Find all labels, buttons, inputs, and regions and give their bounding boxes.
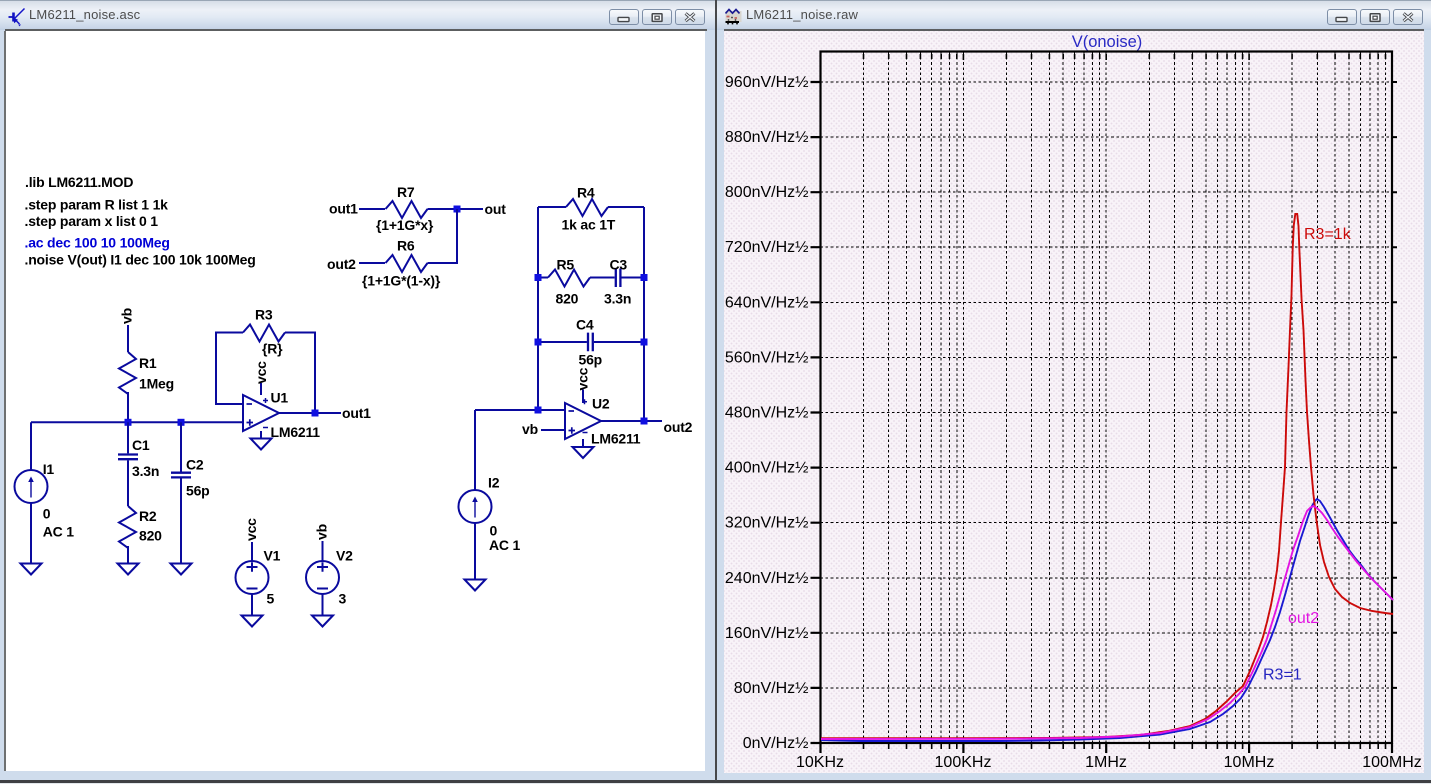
svg-text:.lib LM6211.MOD: .lib LM6211.MOD (25, 174, 133, 190)
svg-text:720nV/Hz½: 720nV/Hz½ (725, 239, 809, 256)
U2 vcc pin (582, 390, 584, 404)
svg-text:R3=1k: R3=1k (1304, 226, 1352, 243)
svg-text:400nV/Hz½: 400nV/Hz½ (725, 460, 809, 477)
svg-text:vcc: vcc (575, 367, 591, 390)
junction rail-C3 right (641, 274, 648, 281)
op-amp U2 (565, 403, 601, 439)
svg-text:820: 820 (556, 291, 579, 307)
svg-text:640nV/Hz½: 640nV/Hz½ (725, 294, 809, 311)
svg-text:.step param x list 0 1: .step param x list 0 1 (25, 213, 159, 229)
wire vcc to V1 (251, 542, 253, 562)
svg-text:160nV/Hz½: 160nV/Hz½ (725, 625, 809, 642)
svg-text:800nV/Hz½: 800nV/Hz½ (725, 184, 809, 201)
svg-text:10MHz: 10MHz (1224, 754, 1275, 771)
divider dark line between windows (715, 0, 717, 781)
wire out2 to R6 (359, 262, 385, 264)
wire node to C1 (127, 422, 129, 453)
ground below C2 (171, 564, 192, 575)
resistor R1 (119, 352, 136, 394)
wire right rail (643, 207, 645, 421)
wire U1 output to out1 (279, 412, 341, 414)
wire R5 to C3 (590, 277, 615, 279)
svg-text:3: 3 (339, 591, 347, 607)
resistor R7 (386, 201, 428, 218)
svg-text:C4: C4 (576, 317, 594, 333)
op-amp U1 (243, 395, 279, 431)
svg-text:1k ac 1T: 1k ac 1T (562, 217, 616, 233)
junction out node (454, 206, 461, 213)
svg-text:.noise V(out) I1 dec 100 10k 1: .noise V(out) I1 dec 100 10k 100Meg (25, 252, 256, 268)
ground below V1 (242, 616, 263, 627)
svg-text:out2: out2 (1288, 610, 1319, 627)
junction rail-C4 left (535, 339, 542, 346)
svg-text:R3=1: R3=1 (1263, 667, 1302, 684)
wire R2 to ground (127, 546, 129, 564)
y-axis ticks right (1392, 82, 1397, 688)
svg-text:480nV/Hz½: 480nV/Hz½ (725, 405, 809, 422)
svg-text:1MHz: 1MHz (1085, 754, 1127, 771)
svg-text:AC 1: AC 1 (43, 524, 75, 540)
svg-text:R5: R5 (557, 257, 575, 273)
svg-text:V2: V2 (336, 548, 353, 564)
wire C3 to rail (622, 277, 645, 279)
x-axis top ticks (864, 54, 1386, 60)
svg-text:3.3n: 3.3n (604, 291, 631, 307)
capacitor C1 (118, 455, 138, 460)
ground below I2 (465, 580, 486, 591)
svg-text:R7: R7 (397, 184, 415, 200)
U2 V- pin to ground (582, 439, 584, 447)
ground below R2 (118, 564, 139, 575)
wire out1 to R7 (359, 208, 385, 210)
capacitor C3 (616, 269, 621, 288)
junction C2 node (178, 419, 185, 426)
wire I2 to ground (474, 523, 476, 580)
wire U2 output to out2 (601, 420, 662, 422)
trace V(onoise) step R3=1k (red curve) (821, 214, 1393, 738)
svg-text:{1+1G*x}: {1+1G*x} (376, 217, 434, 233)
svg-text:out2: out2 (664, 419, 693, 435)
trace V(onoise) out2 (magenta curve) (821, 506, 1393, 739)
svg-text:out1: out1 (329, 201, 358, 217)
svg-text:out1: out1 (342, 405, 371, 421)
junction rail-C4 right (641, 339, 648, 346)
wire I1 to ground (30, 503, 32, 564)
wire C2 node down (180, 422, 182, 471)
svg-text:100KHz: 100KHz (935, 754, 992, 771)
svg-text:out: out (485, 201, 507, 217)
svg-text:U2: U2 (592, 396, 610, 412)
svg-text:560nV/Hz½: 560nV/Hz½ (725, 349, 809, 366)
wire I2 up (474, 410, 476, 490)
svg-text:56p: 56p (186, 483, 210, 499)
wire R3 right leg to out1 (285, 333, 315, 414)
wire R1 to main net (127, 392, 129, 422)
wire C2 to ground (180, 479, 182, 564)
svg-text:U1: U1 (271, 390, 289, 406)
svg-text:V1: V1 (264, 548, 281, 564)
junction out2 (641, 418, 648, 425)
wire R7 to node out (428, 208, 484, 210)
svg-text:820: 820 (139, 528, 162, 544)
U1 V- pin to ground (260, 431, 262, 439)
svg-text:56p: 56p (579, 352, 603, 368)
svg-text:80nV/Hz½: 80nV/Hz½ (734, 680, 809, 697)
svg-text:1Meg: 1Meg (139, 376, 174, 392)
wire V1 to ground (251, 594, 253, 616)
current source I1 (15, 470, 48, 503)
capacitor C4 (588, 333, 593, 352)
svg-text:{1+1G*(1-x)}: {1+1G*(1-x)} (362, 273, 441, 289)
wire vb to V2 (322, 541, 324, 562)
wire I2 to inverting node (475, 409, 565, 411)
junction R1/C1 node (125, 419, 132, 426)
svg-text:.ac dec 100 10 100Meg: .ac dec 100 10 100Meg (25, 235, 170, 251)
svg-text:AC 1: AC 1 (489, 537, 521, 553)
svg-text:10KHz: 10KHz (796, 754, 844, 771)
wire rail to C4 (538, 341, 587, 343)
svg-text:R3: R3 (255, 307, 273, 323)
x-axis minor ticks (864, 743, 1386, 749)
wire rail to R5 (538, 277, 548, 279)
wire vb to U2 (541, 429, 565, 431)
voltage source V1 (236, 561, 269, 594)
svg-text:C1: C1 (132, 437, 150, 453)
ground below I1 (21, 564, 42, 575)
wire left rail (537, 207, 539, 410)
svg-text:I2: I2 (488, 475, 500, 491)
ground below V2 (312, 616, 333, 627)
svg-text:100MHz: 100MHz (1362, 754, 1422, 771)
svg-text:0: 0 (43, 506, 51, 522)
waveform window icon (725, 7, 743, 25)
svg-text:R2: R2 (139, 508, 157, 524)
svg-text:C3: C3 (610, 257, 628, 273)
junction rail-R5 left (535, 274, 542, 281)
plot frame box (821, 52, 1393, 744)
svg-text:R1: R1 (139, 355, 157, 371)
svg-text:out2: out2 (327, 256, 356, 272)
wire I1 to main net (30, 422, 32, 470)
svg-text:LM6211: LM6211 (271, 424, 321, 440)
svg-text:R6: R6 (397, 238, 415, 254)
resistor R2 (119, 506, 136, 548)
U1 vcc pin (260, 383, 262, 395)
svg-text:3.3n: 3.3n (132, 463, 159, 479)
wire vb to R1 (127, 325, 129, 352)
wire R4 left to rail (538, 206, 566, 208)
resistor R5 (548, 270, 590, 287)
wire main input net (31, 421, 243, 423)
svg-text:{R}: {R} (262, 341, 283, 357)
wire C1 to R2 (127, 460, 129, 506)
current source I2 (459, 490, 492, 523)
svg-text:vb: vb (119, 308, 135, 324)
junction rail inverting input (535, 407, 542, 414)
svg-text:5: 5 (267, 591, 275, 607)
schematic window icon (0, 0, 30, 29)
wire C4 to rail (594, 341, 644, 343)
svg-text:0nV/Hz½: 0nV/Hz½ (743, 735, 809, 752)
trace V(onoise) step R3=1 (blue curve) (821, 499, 1393, 741)
svg-text:880nV/Hz½: 880nV/Hz½ (725, 129, 809, 146)
junction out1 (312, 410, 319, 417)
vertical log gridlines (864, 52, 1386, 743)
voltage source V2 (306, 561, 339, 594)
svg-text:V(onoise): V(onoise) (1072, 33, 1143, 51)
x-axis major ticks (821, 743, 1393, 753)
wire R6 up to out node (428, 209, 458, 263)
svg-text:LM6211: LM6211 (591, 431, 641, 447)
svg-text:R4: R4 (577, 185, 595, 201)
svg-text:C2: C2 (186, 456, 204, 472)
horizontal gridlines (821, 82, 1393, 688)
resistor R4 (566, 199, 608, 216)
y-axis ticks left (811, 82, 822, 743)
bottom dark edge line (0, 780, 1431, 783)
svg-text:vb: vb (522, 421, 538, 437)
wire V2 to ground (322, 594, 324, 616)
svg-text:.step param R list 1 1k: .step param R list 1 1k (25, 197, 169, 213)
svg-text:960nV/Hz½: 960nV/Hz½ (725, 74, 809, 91)
ground below U1 (251, 439, 272, 450)
wire R4 right to rail (608, 206, 644, 208)
svg-text:320nV/Hz½: 320nV/Hz½ (725, 515, 809, 532)
svg-text:240nV/Hz½: 240nV/Hz½ (725, 570, 809, 587)
resistor R6 (386, 255, 428, 272)
ground below U2 (573, 447, 594, 458)
wire R3 left leg (216, 333, 243, 405)
capacitor C2 (171, 473, 191, 478)
svg-text:vb: vb (314, 524, 330, 540)
resistor R3 (243, 325, 285, 342)
svg-text:vcc: vcc (243, 518, 259, 541)
svg-text:vcc: vcc (253, 361, 269, 384)
svg-text:I1: I1 (43, 461, 55, 477)
